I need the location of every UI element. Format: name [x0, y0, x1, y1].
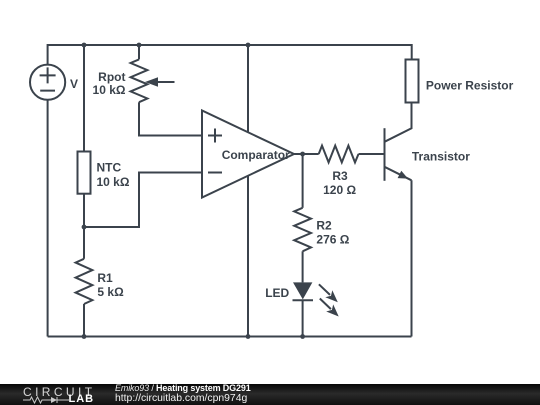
wire R3 to base	[359, 153, 385, 155]
svg-text:NTC: NTC	[97, 161, 122, 175]
label R2 276	[316, 219, 349, 247]
label R3 120	[323, 169, 356, 197]
svg-text:Power Resistor: Power Resistor	[426, 78, 514, 92]
wire output to R2	[302, 154, 304, 208]
label R1 5k	[97, 271, 124, 299]
wire top rail	[48, 45, 412, 65]
footer bar	[0, 384, 540, 405]
wire NTC to R1	[83, 194, 85, 259]
transistor Q1	[385, 103, 412, 337]
wire minus input to NTC node	[84, 173, 202, 228]
wire left rail	[47, 100, 49, 337]
wire mid vertical rail	[247, 45, 249, 337]
resistor R1	[76, 259, 93, 304]
potentiometer Rpot	[131, 59, 175, 102]
svg-text:R2: R2	[316, 219, 332, 233]
wire NTC branch drop	[83, 45, 85, 152]
credit line 1	[115, 384, 251, 393]
credit line 2	[115, 394, 247, 404]
svg-text:10 kΩ: 10 kΩ	[93, 83, 126, 97]
svg-text:5 kΩ: 5 kΩ	[97, 285, 124, 299]
diode LED D1	[293, 282, 339, 316]
svg-text:276 Ω: 276 Ω	[316, 232, 349, 246]
svg-text:R1: R1	[97, 271, 113, 285]
svg-text:Transistor: Transistor	[412, 150, 470, 164]
resistor R3	[319, 146, 359, 163]
wire R2 to LED	[302, 251, 304, 282]
svg-text:Rpot: Rpot	[98, 70, 125, 84]
wire R1 to bottom	[83, 304, 85, 337]
svg-text:LED: LED	[265, 286, 289, 300]
wire comparator output	[294, 153, 319, 155]
svg-text:Comparator: Comparator	[222, 148, 290, 162]
wire LED to bottom	[302, 300, 304, 336]
svg-text:R3: R3	[332, 169, 348, 183]
label Rpot 10k	[93, 70, 126, 97]
thermistor NTC body	[78, 152, 91, 194]
logo LAB	[69, 394, 95, 405]
svg-text:10 kΩ: 10 kΩ	[97, 175, 130, 189]
resistor power body	[406, 60, 419, 103]
wire Rpot branch	[138, 45, 140, 59]
svg-text:V: V	[70, 77, 78, 91]
wire bottom rail	[48, 336, 412, 338]
wire Rpot to plus input	[139, 102, 202, 135]
label NTC 10k	[97, 161, 130, 190]
logo mini schematic	[23, 396, 69, 404]
resistor R2	[294, 208, 311, 252]
svg-text:120 Ω: 120 Ω	[323, 183, 356, 197]
logo CIRCUIT	[23, 386, 95, 398]
voltage source V1	[30, 65, 65, 100]
op-amp U1 comparator	[202, 111, 294, 198]
